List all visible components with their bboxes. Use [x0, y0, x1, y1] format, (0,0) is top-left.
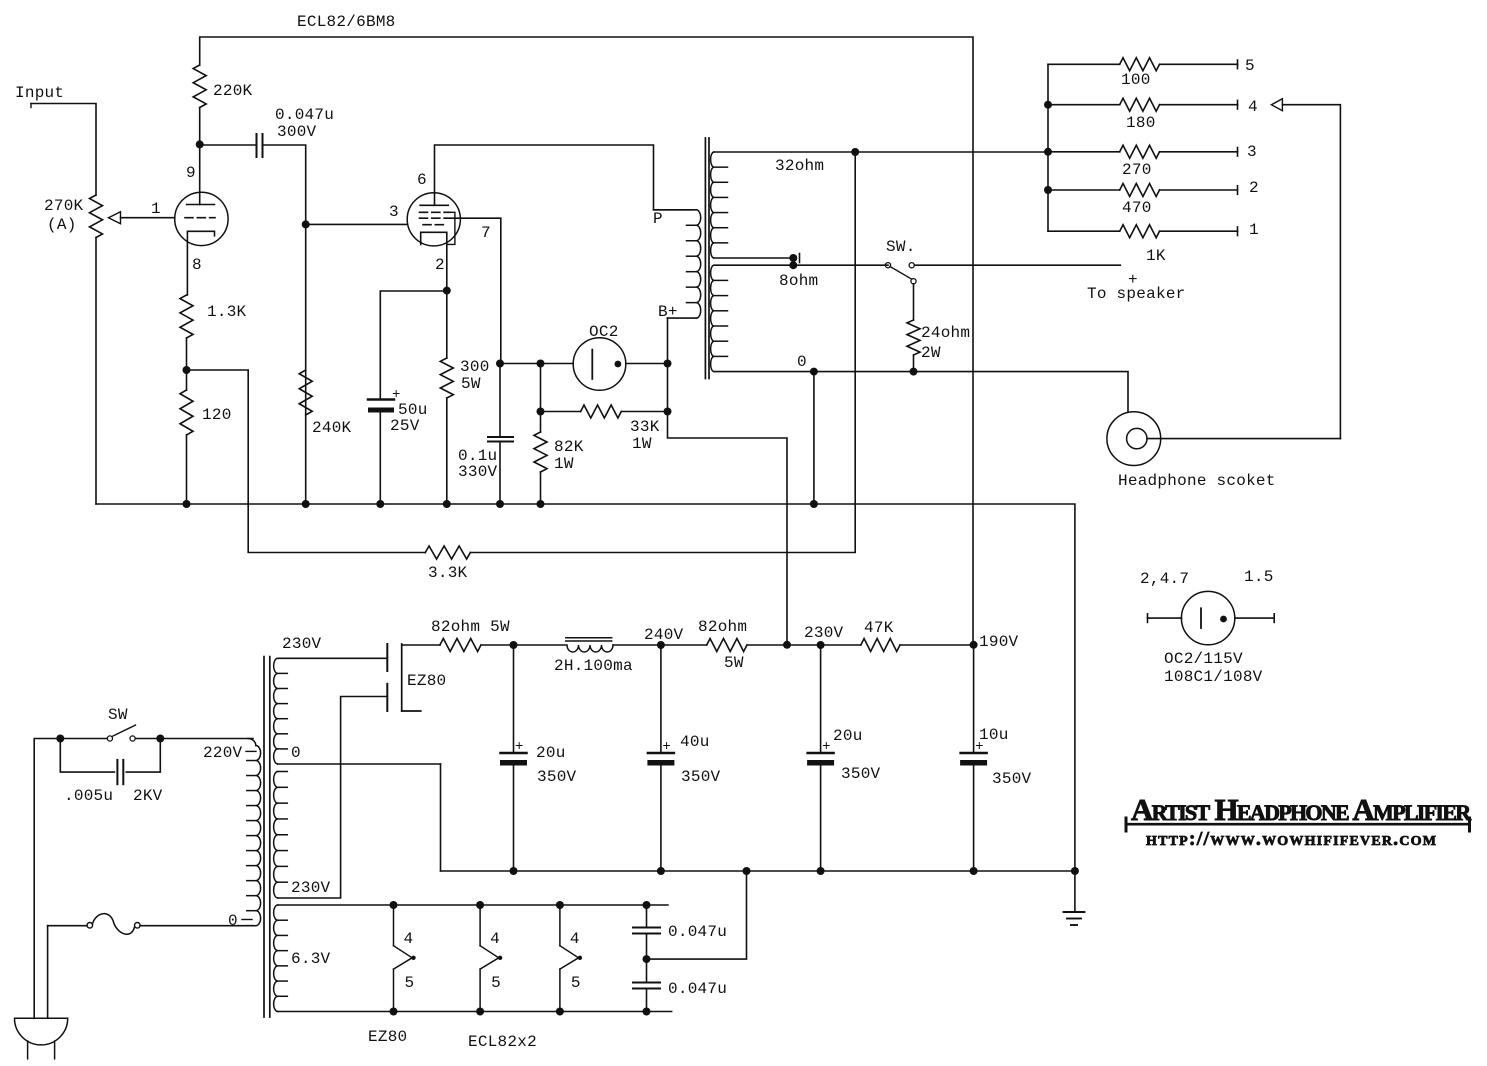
- OPT secondary lower winding: [711, 265, 728, 371]
- label + speaker: [1128, 271, 1138, 289]
- svg-text:330V: 330V: [458, 463, 498, 481]
- label 230V filter: [804, 624, 844, 642]
- svg-text:5: 5: [1245, 57, 1255, 75]
- wire to speaker: [914, 264, 1120, 266]
- node 82K at bus: [537, 500, 545, 508]
- svg-text:220V: 220V: [203, 744, 243, 762]
- wire heater bottom: [278, 1011, 672, 1013]
- wire to 20u node: [481, 644, 566, 646]
- tube EZ80 plates: [386, 644, 388, 711]
- capacitor C 20u 350V third: [807, 645, 880, 871]
- svg-text:350V: 350V: [537, 768, 577, 786]
- wire heater top: [278, 904, 668, 906]
- tube EZ80 cathode: [402, 644, 421, 711]
- wire feedback tap: [187, 370, 426, 553]
- svg-text:4: 4: [490, 930, 500, 948]
- svg-text:108C1/108V: 108C1/108V: [1164, 668, 1263, 686]
- choke L 2H 100ma: [554, 638, 633, 675]
- label 190V: [979, 633, 1019, 651]
- tube V2 cathode: [421, 232, 447, 290]
- wire cathode to 50u: [380, 291, 447, 400]
- capacitor C 0.1u 330V: [458, 364, 513, 505]
- node 300 at bus: [443, 500, 451, 508]
- svg-text:5: 5: [405, 974, 415, 992]
- heater ECL82 second pins 4 5: [556, 901, 582, 1016]
- node 8ohm stub: [789, 254, 797, 262]
- wire input: [31, 104, 96, 196]
- capacitor C 50u 25V electrolytic: [368, 387, 428, 435]
- wire 0 line: [714, 372, 1128, 412]
- tube V2 control grid dashes: [423, 224, 446, 226]
- svg-text:1.3K: 1.3K: [207, 303, 247, 321]
- svg-text:2,4.7: 2,4.7: [1140, 570, 1189, 588]
- wire 0 to ground bus: [813, 372, 815, 504]
- node 82K top junction: [537, 360, 545, 368]
- svg-text:350V: 350V: [681, 768, 721, 786]
- svg-text:SW.: SW.: [886, 238, 916, 256]
- label ECL82/6BM8: [297, 13, 396, 31]
- label 0 secondary: [797, 353, 807, 371]
- label 0 HV: [291, 744, 301, 762]
- tube V2 pentode envelope: [407, 193, 460, 246]
- node mains switch left: [56, 735, 64, 743]
- svg-text:5: 5: [491, 974, 501, 992]
- tube V1a grid dashes: [185, 217, 215, 219]
- svg-text:2H.100ma: 2H.100ma: [554, 657, 633, 675]
- label 8ohm: [779, 272, 818, 290]
- svg-text:1K: 1K: [1146, 247, 1166, 265]
- resistor R 220K: [193, 65, 252, 108]
- svg-text:2: 2: [1249, 179, 1259, 197]
- svg-text:6.3V: 6.3V: [291, 950, 331, 968]
- label SW.: [886, 238, 916, 256]
- wire heater center tap to bus: [647, 871, 747, 959]
- capacitor C 0.047u heater upper: [633, 905, 727, 959]
- fuse F1: [48, 914, 253, 935]
- node heater cap bottom: [643, 1008, 651, 1016]
- svg-text:240K: 240K: [312, 419, 352, 437]
- tube OC2 legend symbol: [1148, 591, 1275, 644]
- label Input: [15, 84, 64, 102]
- svg-text:5: 5: [571, 974, 581, 992]
- label pin 8: [192, 256, 202, 274]
- svg-text:470: 470: [1122, 199, 1152, 217]
- PT HV winding lower 230V: [274, 697, 386, 899]
- PT heater winding 6.3V: [274, 905, 288, 1012]
- node mains switch right: [156, 735, 164, 743]
- svg-text:ECL82x2: ECL82x2: [468, 1033, 537, 1051]
- capacitor C 0.047u heater lower: [633, 959, 727, 1011]
- wire 300 to ground bus: [446, 398, 448, 504]
- svg-text:20u: 20u: [833, 727, 863, 745]
- node heater return at bus: [743, 867, 751, 875]
- logo rule: [1126, 818, 1470, 831]
- label 1.5: [1244, 568, 1274, 586]
- switch SW. speaker: [885, 263, 916, 284]
- svg-text:SW: SW: [108, 706, 128, 724]
- wire 32ohm tap: [714, 151, 1048, 153]
- heater EZ80 pins 4 5: [390, 901, 416, 1016]
- node heater cap top: [643, 901, 651, 909]
- svg-text:0.047u: 0.047u: [275, 106, 334, 124]
- node heater cap center: [643, 955, 651, 963]
- capacitor C 10u 350V: [960, 645, 1031, 871]
- resistor R 120: [180, 370, 232, 435]
- wire choke to 240V: [613, 644, 661, 646]
- svg-text:+: +: [822, 739, 831, 755]
- PT primary winding: [247, 739, 261, 926]
- label To speaker: [1087, 285, 1186, 303]
- ladder bus: [1047, 64, 1049, 231]
- tube V2 grid2 dashes pin 7 lead: [420, 218, 501, 363]
- resistor R 3.3K feedback: [425, 546, 470, 582]
- svg-text:5W: 5W: [724, 654, 744, 672]
- svg-text:+: +: [515, 739, 524, 755]
- resistor R 1K tap1: [1048, 221, 1259, 265]
- wire B+ drop to filter 230V node: [668, 318, 788, 645]
- svg-text:0: 0: [797, 353, 807, 371]
- wire 1.3K to 120 junction: [186, 338, 188, 370]
- resistor R 82ohm 5W first: [431, 618, 510, 652]
- svg-text:(A): (A): [47, 216, 77, 234]
- svg-text:Input: Input: [15, 84, 64, 102]
- wire OC2 rail right: [626, 363, 668, 365]
- svg-text:32ohm: 32ohm: [775, 157, 824, 175]
- node 20u first at bus: [510, 867, 518, 875]
- node 20u third at bus: [817, 867, 825, 875]
- resistor R 1.3K cathode: [180, 295, 247, 338]
- resistor R 82ohm 5W second: [661, 618, 747, 672]
- label OC2/115V: [1164, 650, 1243, 668]
- resistor R 82K 1W: [534, 364, 584, 474]
- node 240K at ground bus: [302, 500, 310, 508]
- resistor R 300 5W: [440, 291, 489, 398]
- wire bus left riser: [440, 764, 442, 871]
- svg-text:220K: 220K: [213, 82, 253, 100]
- label Headphone scoket: [1118, 472, 1276, 490]
- svg-text:.005u 2KV: .005u 2KV: [64, 787, 163, 805]
- label pin 2: [435, 256, 445, 274]
- svg-text:230V: 230V: [282, 635, 322, 653]
- OPT secondary upper winding: [711, 152, 728, 258]
- svg-text:24ohm: 24ohm: [921, 324, 970, 342]
- wire plate node to coupling cap: [200, 144, 257, 146]
- node screen line at OC2 rail: [496, 360, 504, 368]
- svg-text:1: 1: [1249, 221, 1259, 239]
- svg-text:3.3K: 3.3K: [428, 564, 468, 582]
- tube V2 screen dashes and beam bracket: [420, 212, 455, 244]
- node 0.1u at bus: [496, 500, 504, 508]
- node 50u at bus: [376, 500, 384, 508]
- wire feedback to 32ohm tap: [470, 152, 855, 553]
- svg-text:240V: 240V: [644, 626, 684, 644]
- node V2 grid junction: [302, 220, 310, 228]
- svg-text:7: 7: [481, 224, 491, 242]
- svg-text:1: 1: [151, 200, 161, 218]
- svg-text:0: 0: [291, 744, 301, 762]
- svg-text:82ohm: 82ohm: [698, 618, 747, 636]
- svg-text:3: 3: [389, 203, 399, 221]
- node ladder tap2: [1044, 186, 1052, 194]
- resistor R 47K: [861, 619, 900, 652]
- svg-text:6: 6: [417, 171, 427, 189]
- svg-text:0.047u: 0.047u: [668, 923, 727, 941]
- OPT core: [705, 138, 709, 379]
- label P: [653, 210, 663, 228]
- capacitor C .005u 2KV: [60, 739, 162, 806]
- svg-text:5W: 5W: [461, 375, 481, 393]
- svg-text:270: 270: [1122, 161, 1152, 179]
- wire live from plug: [34, 739, 58, 1019]
- svg-text:4: 4: [1248, 98, 1258, 116]
- wire 8ohm line to switch: [714, 258, 888, 265]
- svg-text:2W: 2W: [921, 344, 941, 362]
- resistor R 24ohm 2W: [907, 284, 970, 372]
- label 2,4.7: [1140, 570, 1189, 588]
- svg-text:40u: 40u: [680, 733, 710, 751]
- node B+ at OC2: [664, 360, 672, 368]
- svg-text:230V: 230V: [804, 624, 844, 642]
- switch SW mains: [63, 725, 158, 741]
- label 32ohm: [775, 157, 824, 175]
- svg-text:EZ80: EZ80: [368, 1028, 407, 1046]
- label 220V: [203, 744, 256, 762]
- wire 8ohm stub: [714, 254, 800, 263]
- wire 50u to ground bus: [379, 413, 381, 505]
- node 24ohm at 0 line: [910, 368, 918, 376]
- capacitor C 40u 350V: [647, 645, 720, 871]
- tube V1a triode envelope: [175, 192, 228, 245]
- label OC2: [589, 323, 619, 341]
- capacitor C 0.047u 300V coupling: [257, 106, 335, 157]
- wire 82K to ground bus: [540, 472, 542, 504]
- svg-text:180: 180: [1126, 114, 1156, 132]
- node 0 at ground bus: [810, 500, 818, 508]
- node 33K left junction: [537, 408, 545, 416]
- node 0 line to ground: [810, 368, 818, 376]
- wire 120 to ground bus: [186, 435, 188, 504]
- svg-text:120: 120: [202, 406, 232, 424]
- svg-text:25V: 25V: [390, 417, 420, 435]
- label EZ80: [407, 672, 446, 690]
- svg-text:1W: 1W: [632, 435, 652, 453]
- node 32ohm at feedback riser: [851, 148, 859, 156]
- node B+ feed at filter: [783, 641, 791, 649]
- resistor R 180 tap4: [1048, 98, 1258, 132]
- svg-text:1.5: 1.5: [1244, 568, 1274, 586]
- PT HV winding upper 230V: [274, 658, 441, 764]
- PT core: [264, 657, 270, 1017]
- wire 47K to 190V: [900, 644, 974, 646]
- svg-text:8: 8: [192, 256, 202, 274]
- headphone socket: [1107, 412, 1161, 466]
- resistor R 100 tap5: [1048, 57, 1255, 89]
- svg-text:3: 3: [1247, 143, 1257, 161]
- svg-text:OC2/115V: OC2/115V: [1164, 650, 1243, 668]
- svg-text:350V: 350V: [841, 765, 881, 783]
- svg-text:300: 300: [460, 358, 490, 376]
- svg-text:Artist Headphone Amplifier: Artist Headphone Amplifier: [1131, 792, 1472, 827]
- tube OC2 regulator: [573, 338, 626, 391]
- label 0 primary: [228, 912, 252, 930]
- node V2 cathode junction: [443, 287, 451, 295]
- label B+: [658, 303, 678, 321]
- label 240V: [644, 626, 684, 644]
- svg-text:300V: 300V: [277, 123, 317, 141]
- svg-text:230V: 230V: [291, 879, 331, 897]
- tube V1a cathode: [187, 231, 214, 295]
- label EZ80 heater: [368, 1028, 407, 1046]
- svg-text:P: P: [653, 210, 663, 228]
- label 230V lower: [291, 879, 331, 897]
- svg-text:1W: 1W: [554, 455, 574, 473]
- svg-text:EZ80: EZ80: [407, 672, 446, 690]
- label pin 9: [186, 164, 196, 182]
- svg-text:+: +: [662, 739, 671, 755]
- label pin 3: [389, 203, 399, 221]
- label 230V upper: [282, 635, 322, 653]
- wire EZ80 cathode to filter: [402, 644, 440, 646]
- svg-text:190V: 190V: [979, 633, 1019, 651]
- node cathode divider junction: [183, 366, 191, 374]
- svg-text:10u: 10u: [979, 726, 1009, 744]
- ground symbol: [1064, 912, 1085, 925]
- node plate of V1 junction: [196, 140, 204, 148]
- wire switch to primary: [160, 738, 253, 740]
- svg-text:OC2: OC2: [589, 323, 619, 341]
- plug AC: [14, 1018, 67, 1059]
- svg-text:4: 4: [404, 930, 414, 948]
- node V1a cathode chain at bus: [183, 500, 191, 508]
- svg-text:4: 4: [570, 930, 580, 948]
- svg-text:ECL82/6BM8: ECL82/6BM8: [297, 13, 396, 31]
- wire to 230V node: [747, 644, 861, 646]
- node 8ohm line: [789, 261, 797, 269]
- svg-text:47K: 47K: [864, 619, 894, 637]
- svg-text:82ohm 5W: 82ohm 5W: [431, 618, 510, 636]
- node ladder tap3: [1044, 148, 1052, 156]
- node 20u first: [510, 641, 518, 649]
- label pin 1: [151, 200, 161, 218]
- label 108C1/108V: [1164, 668, 1263, 686]
- svg-text:100: 100: [1121, 71, 1151, 89]
- svg-text:0: 0: [228, 912, 238, 930]
- node 240V: [657, 641, 665, 649]
- wire V2 plate to OPT primary: [435, 145, 693, 210]
- node ground riser at bottom bus: [1071, 867, 1079, 875]
- resistor R 33K 1W: [541, 405, 668, 453]
- svg-text:8ohm: 8ohm: [779, 272, 818, 290]
- resistor R 270 tap3: [1048, 143, 1257, 179]
- svg-text:20u: 20u: [536, 744, 566, 762]
- label SW mains: [108, 706, 128, 724]
- wire grid to V2: [306, 223, 408, 225]
- svg-text:350V: 350V: [992, 770, 1032, 788]
- svg-text:To speaker: To speaker: [1087, 285, 1186, 303]
- svg-text:270K: 270K: [44, 197, 84, 215]
- wire OC2 rail left: [500, 363, 573, 365]
- node ladder tap4: [1044, 101, 1052, 109]
- wire coupling cap to grid leak: [263, 145, 306, 504]
- svg-text:http://www.wowhififever.com: http://www.wowhififever.com: [1146, 828, 1437, 850]
- pot wiper arrow: [109, 212, 175, 224]
- svg-text:Headphone scoket: Headphone scoket: [1118, 472, 1276, 490]
- resistor R 240K grid leak: [299, 370, 351, 437]
- wiper arrow tap4: [1271, 99, 1340, 439]
- wire socket to wiper riser: [1147, 438, 1340, 440]
- label pin 7: [481, 224, 491, 242]
- logo url: [1146, 828, 1437, 850]
- node 33K right junction: [664, 408, 672, 416]
- svg-text:9: 9: [186, 164, 196, 182]
- wire 220K bottom to plate node: [199, 108, 201, 145]
- tube V2 plate: [420, 204, 448, 206]
- wire top B+ rail from 220K top to 190V node: [200, 37, 973, 645]
- svg-text:0.047u: 0.047u: [668, 980, 727, 998]
- node 40u at bus: [657, 867, 665, 875]
- label ECL82x2: [468, 1033, 537, 1051]
- wire bottom bus: [441, 870, 1075, 872]
- potentiometer 270K (A): [44, 195, 103, 237]
- logo Artist Headphone Amplifier: [1131, 792, 1472, 827]
- capacitor C 20u 350V first: [500, 645, 577, 871]
- wire main ground bus: [96, 504, 1075, 912]
- svg-text:82K: 82K: [554, 438, 584, 456]
- node 10u at bus: [970, 867, 978, 875]
- OPT primary winding: [654, 210, 701, 318]
- label pin 6: [417, 171, 427, 189]
- svg-text:33K: 33K: [630, 418, 660, 436]
- node 190V: [970, 641, 978, 649]
- wire pot bottom to ground bus: [95, 238, 97, 505]
- tube V1a plate: [187, 144, 215, 204]
- svg-text:2: 2: [435, 256, 445, 274]
- resistor R 470 tap2: [1048, 179, 1259, 217]
- heater ECL82 first pins 4 5: [476, 901, 502, 1016]
- wire neutral from plug: [47, 926, 49, 1019]
- label 6.3V: [291, 950, 331, 968]
- node 20u third: [817, 641, 825, 649]
